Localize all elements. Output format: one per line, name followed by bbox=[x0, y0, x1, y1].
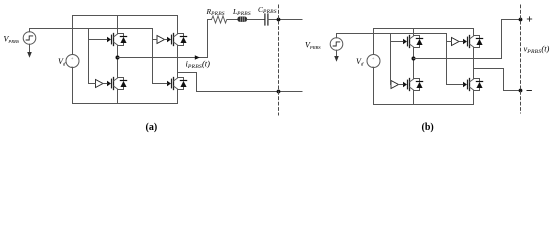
transistor S2 lower-left (a) bbox=[107, 78, 127, 90]
current arrow i_PRBS (a) bbox=[195, 55, 200, 60]
svg-text:RPRBS: RPRBS bbox=[206, 7, 225, 17]
wire left rail above V_d (a) bbox=[72, 16, 74, 55]
transistor S3 upper-right (b) bbox=[463, 36, 483, 48]
wire gate bus drop left corner (b) bbox=[390, 84, 393, 86]
wire top dc rail (a) bbox=[73, 15, 178, 17]
wire left rail above V_d (b) bbox=[373, 29, 375, 55]
wire right leg lower source (a) bbox=[177, 90, 179, 104]
wire bottom output (b) bbox=[474, 69, 521, 91]
wire S3 triangle output (b) bbox=[459, 41, 463, 43]
wire V_PRBS top to gate bus (a) bbox=[30, 29, 153, 32]
svg-text:Vd: Vd bbox=[58, 57, 66, 68]
source V_PRBS (b) bbox=[330, 38, 343, 51]
capacitor C_PRBS (a) bbox=[265, 14, 268, 25]
wire gate bus drop right (b) bbox=[446, 34, 448, 85]
svg-text:LPRBS: LPRBS bbox=[232, 7, 251, 17]
wire S2 gate lead (a) bbox=[103, 83, 107, 85]
wire gate bus drop left corner (a) bbox=[89, 83, 96, 85]
transistor S2 lower-left (b) bbox=[403, 79, 423, 91]
wire S4 gate lead (b) bbox=[447, 84, 464, 86]
source V_PRBS (a) bbox=[23, 32, 36, 45]
wire bottom dc rail (a) bbox=[73, 103, 178, 105]
wire left leg lower source (a) bbox=[117, 90, 119, 104]
wire V_PRBS top to gate bus (b) bbox=[337, 34, 447, 38]
wire left leg mid (a) bbox=[117, 46, 119, 78]
node dot top grid (a) bbox=[277, 18, 281, 22]
svg-text:Vd: Vd bbox=[356, 57, 364, 68]
plus sign (b) bbox=[527, 17, 531, 21]
wire right leg mid (a) bbox=[177, 46, 179, 78]
driver triangle S2 (a) bbox=[96, 80, 104, 88]
svg-text:VPRBS: VPRBS bbox=[4, 34, 20, 44]
transistor S1 upper-left (a) bbox=[107, 34, 127, 46]
wire S3 triangle output (a) bbox=[165, 39, 168, 41]
wire left leg mid (b) bbox=[413, 48, 415, 79]
wire left leg upper drain (a) bbox=[117, 16, 119, 34]
node dot left leg (b) bbox=[412, 57, 416, 61]
svg-text:(b): (b) bbox=[422, 122, 434, 133]
source V_d (b) bbox=[367, 55, 380, 70]
node dot top grid (b) bbox=[519, 18, 523, 22]
wire S2 gate lead (b) bbox=[399, 84, 404, 86]
transistor S1 upper-left (b) bbox=[403, 36, 423, 48]
transistor S4 lower-right (a) bbox=[167, 78, 187, 90]
wire left leg lower source (b) bbox=[413, 91, 415, 105]
node dot bottom grid (a) bbox=[277, 90, 281, 94]
wire right leg upper drain (b) bbox=[473, 29, 475, 36]
driver triangle S3 (a) bbox=[157, 36, 165, 44]
grid dashed line (a) bbox=[278, 5, 280, 115]
svg-text:+: + bbox=[372, 56, 375, 61]
wire left leg upper drain (b) bbox=[413, 29, 415, 36]
node A junction dot (a) bbox=[116, 56, 120, 60]
grid dashed line (b) bbox=[520, 5, 522, 113]
wire gate bus drop left (a) bbox=[88, 29, 90, 84]
transistor S3 upper-right (a) bbox=[167, 34, 187, 46]
svg-text:+: + bbox=[71, 56, 74, 61]
driver triangle S3 (b) bbox=[452, 38, 460, 46]
resistor R_PRBS (a) bbox=[212, 16, 238, 23]
wire gate bus drop right (a) bbox=[152, 29, 154, 84]
transistor S4 lower-right (b) bbox=[463, 79, 483, 91]
wire bottom output (a) bbox=[178, 73, 303, 92]
wire right leg upper drain (a) bbox=[177, 16, 179, 34]
wire left rail below V_d (a) bbox=[72, 68, 74, 104]
ground arrow below V_PRBS (a) bbox=[27, 44, 32, 58]
source V_d (a) bbox=[66, 55, 79, 70]
svg-text:CPRBS: CPRBS bbox=[258, 5, 277, 15]
wire right leg lower source (b) bbox=[473, 91, 475, 105]
wire node A output (a) bbox=[118, 20, 212, 58]
wire top output (b) bbox=[414, 20, 521, 59]
svg-text:VPRBS: VPRBS bbox=[305, 40, 321, 50]
svg-text:iPRBS(t): iPRBS(t) bbox=[186, 59, 211, 70]
driver triangle S2 (b) bbox=[391, 81, 399, 89]
wire gate bus drop left (b) bbox=[390, 34, 392, 85]
wire S1 gate lead (a) bbox=[89, 39, 108, 41]
wire bottom dc rail (b) bbox=[374, 104, 474, 106]
svg-text:vPRBS(t): vPRBS(t) bbox=[524, 44, 550, 55]
wire right leg mid (b) bbox=[473, 48, 475, 79]
wire S3 triangle input (b) bbox=[447, 41, 452, 43]
wire C to grid stub (a) bbox=[268, 19, 302, 21]
wire top dc rail (b) bbox=[374, 28, 474, 30]
wire S3 triangle input (a) bbox=[153, 39, 158, 41]
wire left rail below V_d (b) bbox=[373, 68, 375, 105]
ground arrow below V_PRBS (b) bbox=[334, 50, 339, 62]
svg-text:(a): (a) bbox=[146, 122, 158, 133]
wire S4 gate lead (a) bbox=[153, 83, 168, 85]
wire L to C (a) bbox=[247, 19, 265, 21]
node dot bottom grid (b) bbox=[519, 89, 523, 93]
wire S1 gate lead (b) bbox=[391, 41, 404, 43]
inductor L_PRBS (a) bbox=[237, 17, 247, 22]
minus sign (b) bbox=[527, 90, 531, 92]
